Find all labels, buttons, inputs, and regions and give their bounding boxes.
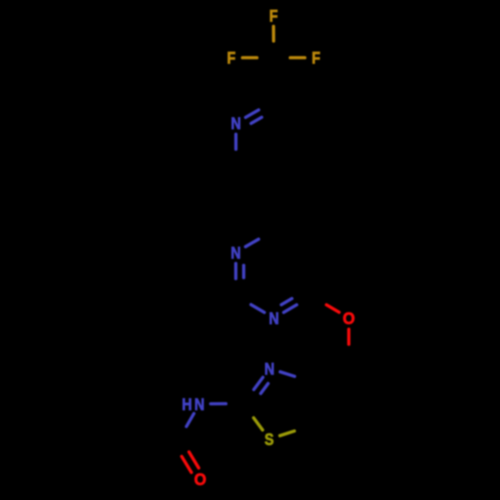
double bond N1=C2 pyridine (inner line) — [251, 117, 262, 123]
bond N1-C6 pyridine — [234, 134, 237, 149]
double bond N3=C2 pyrimidine (inner line) — [242, 265, 245, 277]
bond F3-C(CF3) — [290, 56, 305, 59]
svg-text:H: H — [182, 396, 192, 414]
svg-text:S: S — [265, 431, 274, 449]
double bond C=O line b — [182, 456, 192, 472]
bond C6(pyrimidine)-O ether — [326, 305, 339, 313]
double bond C=O line a — [189, 452, 199, 468]
svg-text:N: N — [231, 244, 241, 262]
double bond N3=C2 thiazole (inner line) — [261, 384, 268, 394]
bond N1-C2 pyrimidine — [251, 305, 264, 313]
bond N3-C4 pyrimidine — [246, 239, 259, 247]
svg-text:F: F — [312, 50, 321, 68]
bond S1-C2 thiazole — [254, 418, 263, 430]
bond NH-C2 thiazole — [211, 402, 226, 405]
double bond N1=C2 pyridine — [246, 110, 259, 118]
bond N3-C4 thiazole — [280, 372, 294, 377]
svg-text:F: F — [269, 7, 278, 25]
bond F2-C(CF3) — [243, 56, 257, 59]
bond F1-C(CF3) — [272, 26, 275, 41]
bond O-CH2 — [347, 329, 350, 344]
double bond N1=C6 pyrimidine (inner line) — [281, 299, 292, 305]
bond S1-C5 thiazole — [280, 431, 295, 436]
svg-text:O: O — [343, 310, 355, 328]
double bond N3=C2 pyrimidine — [234, 264, 237, 279]
svg-text:N: N — [231, 115, 241, 133]
svg-text:N: N — [269, 310, 279, 328]
svg-text:N: N — [264, 360, 274, 378]
svg-text:F: F — [227, 50, 236, 68]
double bond N3=C2 thiazole — [254, 377, 263, 389]
double bond N1=C6 pyrimidine — [284, 305, 297, 313]
svg-text:N: N — [194, 396, 204, 414]
bond NH-C(=O) — [186, 414, 194, 427]
svg-text:O: O — [194, 471, 206, 489]
